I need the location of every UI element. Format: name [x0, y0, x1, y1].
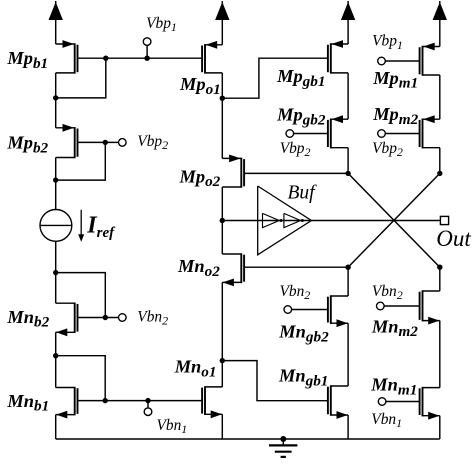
- svg-text:Out: Out: [436, 226, 471, 251]
- svg-text:Buf: Buf: [288, 182, 318, 203]
